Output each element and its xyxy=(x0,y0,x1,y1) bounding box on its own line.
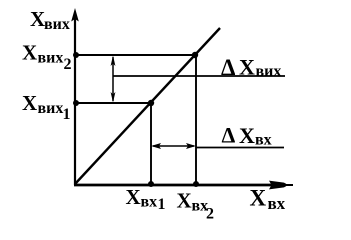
svg-text:X: X xyxy=(177,189,192,213)
svg-text:вх: вх xyxy=(268,194,286,213)
svg-text:2: 2 xyxy=(64,56,72,73)
svg-text:1: 1 xyxy=(158,196,166,213)
svg-text:X: X xyxy=(239,123,255,148)
svg-text:X: X xyxy=(30,7,45,31)
horizontal double arrow delta Xvx xyxy=(153,145,194,147)
x-axis arrowhead xyxy=(269,181,288,190)
svg-text:Δ: Δ xyxy=(222,123,236,148)
svg-text:вх: вх xyxy=(255,132,272,149)
vertical line Xvx2 xyxy=(195,55,197,185)
y-axis arrowhead xyxy=(71,8,79,22)
svg-text:вих: вих xyxy=(38,50,64,67)
horizontal level line Xvyh2 xyxy=(75,54,195,56)
svg-text:X: X xyxy=(22,91,37,115)
y-axis xyxy=(74,18,76,185)
svg-text:X: X xyxy=(22,41,37,65)
transfer characteristic diagonal xyxy=(75,28,220,184)
leader underline of delta Xvyh label xyxy=(113,75,285,77)
x-axis xyxy=(74,184,286,187)
node dot axis Xvyh2 xyxy=(73,52,79,58)
svg-text:вих: вих xyxy=(256,63,282,80)
svg-text:X: X xyxy=(239,55,255,80)
svg-text:Δ: Δ xyxy=(221,55,236,80)
horizontal level line Xvyh1 xyxy=(75,102,151,104)
svg-text:1: 1 xyxy=(63,106,71,123)
node dot diagonal upper xyxy=(192,52,198,58)
node dot diagonal lower xyxy=(148,100,154,106)
svg-text:вх: вх xyxy=(141,194,158,211)
svg-text:X: X xyxy=(126,185,141,209)
svg-text:2: 2 xyxy=(206,206,214,223)
svg-text:X: X xyxy=(250,186,267,211)
svg-text:вих: вих xyxy=(38,100,64,117)
vertical double arrow delta Xvyh xyxy=(112,57,114,101)
underline of delta Xvx label xyxy=(196,147,284,149)
node dot axis Xvyh1 xyxy=(73,100,79,106)
node dot x-axis Xvx1 xyxy=(148,181,154,187)
node dot x-axis Xvx2 xyxy=(193,181,199,187)
svg-text:вих: вих xyxy=(44,16,70,33)
vertical line Xvx1 xyxy=(150,103,152,185)
